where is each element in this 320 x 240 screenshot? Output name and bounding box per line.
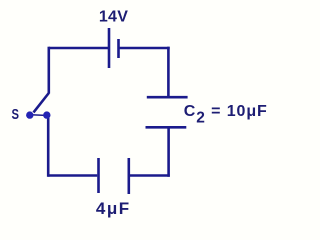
battery B1 long plate (+) — [108, 28, 111, 68]
svg-text:4μF: 4μF — [96, 199, 131, 218]
capacitor C3 right plate — [128, 158, 131, 194]
switch S arm (diagonal) — [34, 93, 49, 112]
switch S left terminal dot — [26, 111, 33, 118]
svg-text:C2 = 10μF: C2 = 10μF — [184, 103, 268, 127]
switch S right terminal dot — [43, 111, 50, 118]
wire top-left horizontal — [49, 47, 108, 50]
wire right vertical upper — [167, 47, 170, 97]
capacitor C2 top plate — [147, 96, 188, 99]
wire top-right horizontal — [119, 47, 170, 50]
switch S connector between terminals — [31, 114, 46, 117]
wire bottom-left horizontal — [48, 174, 97, 177]
svg-text:S: S — [12, 105, 20, 122]
capacitor C2 bottom plate — [146, 126, 187, 129]
wire bottom-right horizontal — [129, 174, 169, 177]
battery B1 short plate (-) — [117, 39, 120, 58]
wire left vertical upper — [47, 47, 50, 94]
wire left vertical lower — [47, 117, 50, 177]
wire right vertical lower — [167, 127, 170, 177]
svg-text:14V: 14V — [99, 9, 128, 26]
capacitor C3 left plate — [97, 158, 100, 193]
